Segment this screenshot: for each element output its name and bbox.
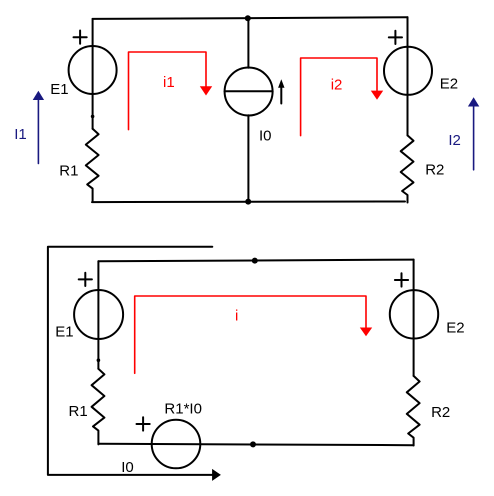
wire left branch (top circuit) xyxy=(92,19,94,129)
mesh current loop i1 (red) xyxy=(129,52,213,130)
svg-text:I2: I2 xyxy=(448,132,461,149)
mesh current loop i (red, bottom circuit) xyxy=(135,296,373,373)
svg-text:E1: E1 xyxy=(50,81,68,98)
current source I0 (top circuit) xyxy=(225,68,285,145)
svg-text:E1: E1 xyxy=(55,323,73,340)
resistor R1 (top circuit) xyxy=(59,129,98,201)
svg-text:R1*I0: R1*I0 xyxy=(164,401,202,418)
voltage source E2 (top circuit) xyxy=(384,31,458,95)
node junction bottom middle xyxy=(245,199,251,205)
node junction top middle xyxy=(245,15,251,21)
resistor R1 (bottom circuit) xyxy=(69,369,105,445)
node junction top (bottom circuit) xyxy=(252,258,258,264)
branch current arrow I1 (blue) xyxy=(14,91,44,164)
resistor R2 (bottom circuit) xyxy=(407,376,450,446)
svg-text:E2: E2 xyxy=(440,76,458,93)
wire top (top circuit) xyxy=(93,17,408,19)
resistor R2 (top circuit) xyxy=(401,135,445,202)
mesh current loop i2 (red) xyxy=(301,58,384,136)
svg-text:I1: I1 xyxy=(14,126,27,143)
voltage source R1*I0 (bottom circuit) xyxy=(137,401,202,469)
wire left branch (bottom circuit) xyxy=(97,261,99,369)
voltage source E2 (bottom circuit) xyxy=(390,273,465,338)
svg-text:i: i xyxy=(235,307,238,324)
wire top (bottom circuit) xyxy=(98,260,413,262)
wire middle branch lower segment (top circuit) xyxy=(247,115,249,201)
svg-text:R1: R1 xyxy=(59,163,78,180)
svg-text:R1: R1 xyxy=(69,403,88,420)
branch current arrow I2 (blue) xyxy=(448,97,479,170)
svg-text:i2: i2 xyxy=(331,76,343,93)
node junction bottom (bottom circuit) xyxy=(250,441,256,447)
wire bottom (bottom circuit) xyxy=(98,444,413,446)
svg-text:i1: i1 xyxy=(163,74,175,91)
voltage source E1 (top circuit) xyxy=(50,31,116,99)
svg-text:R2: R2 xyxy=(425,161,444,178)
voltage source E1 (bottom circuit) xyxy=(55,273,123,341)
svg-text:E2: E2 xyxy=(446,319,464,336)
outer loop wire with arrow I0 (bottom circuit) xyxy=(48,247,221,481)
wire bottom (top circuit) xyxy=(92,201,405,204)
svg-text:I0: I0 xyxy=(259,128,272,145)
wire right branch (bottom circuit) xyxy=(413,260,415,376)
wire right branch (top circuit) xyxy=(407,17,409,135)
svg-text:I0: I0 xyxy=(121,459,134,476)
wire middle branch upper segment (top circuit) xyxy=(247,18,249,67)
svg-text:R2: R2 xyxy=(431,404,450,421)
node small joint on E1 branch (bottom circuit) xyxy=(97,358,101,362)
node small joint on E1 branch (top circuit) xyxy=(91,115,95,119)
